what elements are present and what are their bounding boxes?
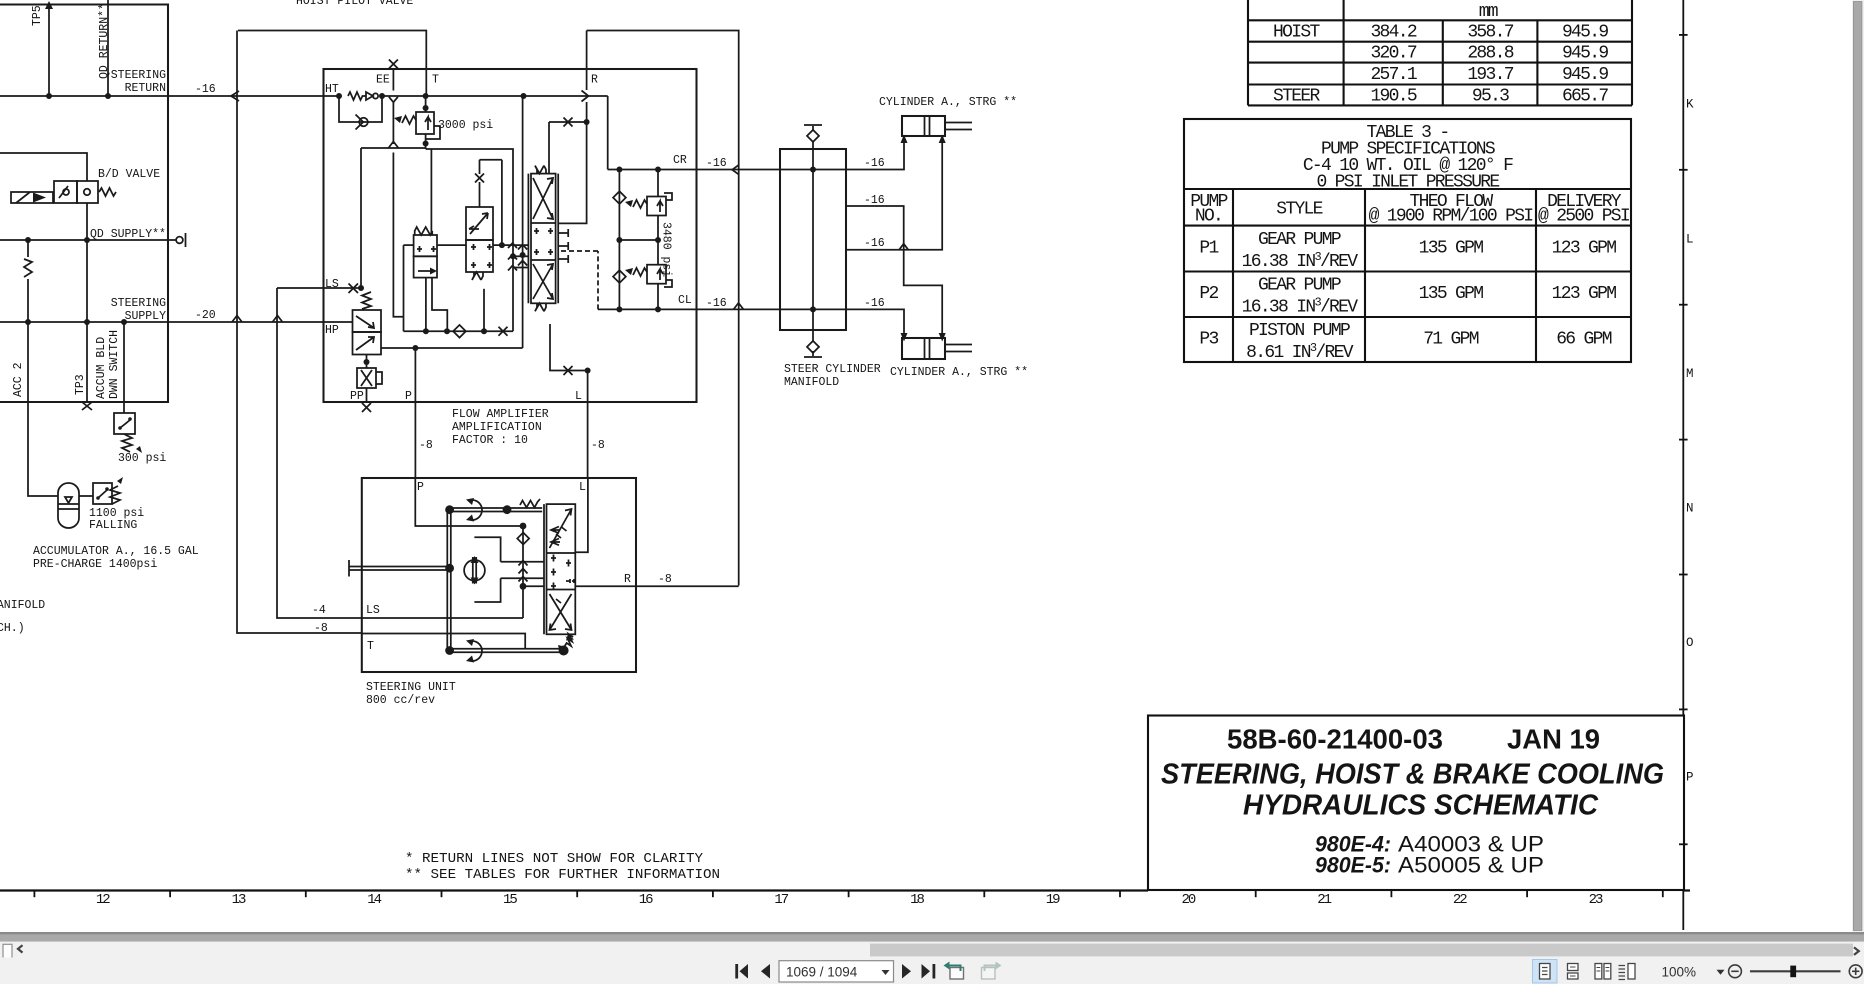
steering cylinder lower <box>902 338 972 359</box>
label CR -16 <box>673 154 727 170</box>
svg-text:STEERING, HOIST & BRAKE COOLIN: STEERING, HOIST & BRAKE COOLING <box>1161 759 1664 791</box>
label -16 line4 <box>864 297 885 310</box>
svg-text:1069 / 1094: 1069 / 1094 <box>786 965 858 980</box>
svg-text:HP: HP <box>325 324 339 337</box>
wire TP5 riser <box>45 1 53 99</box>
zoom out button <box>1729 965 1742 978</box>
pilot sub box <box>361 148 513 331</box>
svg-text:A50005 & UP: A50005 & UP <box>1398 853 1544 878</box>
layout button continuous <box>1568 964 1579 980</box>
label 300 psi <box>118 452 166 465</box>
svg-text:-8: -8 <box>419 439 433 452</box>
wire steering return -16 <box>0 91 324 101</box>
horizontal scrollbar thumb <box>870 944 1853 957</box>
check valve CR side <box>613 170 626 241</box>
label 3000 psi <box>438 119 493 132</box>
svg-text:@ 1900 RPM/100 PSI: @ 1900 RPM/100 PSI <box>1369 207 1534 227</box>
label -8 L line <box>591 439 605 452</box>
svg-text:NO.: NO. <box>1195 207 1222 227</box>
svg-text:13: 13 <box>232 892 246 908</box>
svg-text:800 cc/rev: 800 cc/rev <box>366 694 435 707</box>
svg-text:135 GPM: 135 GPM <box>1419 239 1484 259</box>
ruler ticks <box>34 891 1662 898</box>
wire CL <box>558 251 813 312</box>
pressure valve HP <box>353 292 523 355</box>
svg-text:-16: -16 <box>864 194 885 207</box>
page bottom edge <box>0 932 1864 935</box>
label MANIFOLD (clipped) <box>0 599 45 612</box>
note return lines <box>405 851 720 883</box>
gerotor return double line <box>445 639 568 663</box>
svg-text:STEER: STEER <box>1273 87 1320 107</box>
svg-text:LS: LS <box>366 604 380 617</box>
svg-text:HOIST PILOT VALVE: HOIST PILOT VALVE <box>296 0 413 8</box>
port label R <box>591 74 598 87</box>
hoist pilot valve label (clipped at top) <box>296 0 413 8</box>
svg-text:58B-60-21400-03: 58B-60-21400-03 <box>1227 724 1443 755</box>
title line 2 <box>1243 790 1599 822</box>
svg-text:SUPPLY: SUPPLY <box>125 310 167 323</box>
svg-text:PRE-CHARGE 1400psi: PRE-CHARGE 1400psi <box>33 558 157 571</box>
svg-text:MANIFOLD: MANIFOLD <box>784 376 839 389</box>
wire LS vertical to steering unit <box>277 288 362 618</box>
zoom in button <box>1849 965 1862 978</box>
label ACCUM BLD DWN SWITCH <box>95 330 121 399</box>
label CYLINDER A STRG upper <box>879 96 1017 109</box>
wire R bridge <box>587 31 744 586</box>
svg-text:M: M <box>1686 367 1694 381</box>
check valve manifold bottom <box>804 330 822 357</box>
relief valve 3000psi <box>394 96 440 149</box>
label TP5 <box>31 5 44 26</box>
svg-text:L: L <box>1686 233 1694 247</box>
svg-text:ACC 2: ACC 2 <box>12 362 25 397</box>
svg-text:PISTON PUMP: PISTON PUMP <box>1249 321 1350 341</box>
title block box <box>1148 716 1684 891</box>
svg-text:T: T <box>432 74 439 87</box>
wire T bridge <box>238 31 426 97</box>
svg-text:358.7: 358.7 <box>1467 23 1513 43</box>
port label L steering unit <box>579 481 586 494</box>
steering control spool <box>544 504 575 634</box>
relief valve 3480psi lower <box>625 240 672 309</box>
svg-text:300 psi: 300 psi <box>118 452 166 465</box>
check valve PP <box>357 355 382 403</box>
svg-text:TP5: TP5 <box>31 5 44 26</box>
svg-text:190.5: 190.5 <box>1370 87 1416 107</box>
wire HT drop with orifice <box>518 96 527 348</box>
wire cylinder line 2 <box>846 206 946 342</box>
svg-text:17: 17 <box>774 892 788 908</box>
label FLOW AMPLIFIER <box>452 408 549 447</box>
border ticks right <box>1679 35 1688 844</box>
label QD RETURN** <box>98 3 111 79</box>
svg-text:ACCUM BLD: ACCUM BLD <box>95 337 108 399</box>
label STEERING UNIT <box>366 681 456 707</box>
port label P <box>405 390 412 403</box>
spool feed double line <box>445 498 542 522</box>
wire QD supply <box>0 237 176 243</box>
vertical scrollbar thumb <box>1853 2 1862 931</box>
valve B/D body <box>54 181 116 203</box>
next view button (disabled) <box>982 962 1002 980</box>
svg-text:L: L <box>575 390 582 403</box>
steering cylinder upper <box>902 116 972 136</box>
prev view button <box>944 962 964 980</box>
svg-text:FACTOR : 10: FACTOR : 10 <box>452 434 528 447</box>
wire R internal <box>575 585 636 587</box>
svg-text:0 PSI INLET PRESSURE: 0 PSI INLET PRESSURE <box>1316 173 1499 193</box>
wire L internal <box>575 478 588 552</box>
svg-text:HOIST: HOIST <box>1273 23 1320 43</box>
solenoid B/D <box>11 192 53 203</box>
label -16 steering return <box>195 83 216 96</box>
svg-text:@ 2500 PSI: @ 2500 PSI <box>1538 207 1630 227</box>
title doc number <box>1227 724 1600 755</box>
manifold box A outline <box>0 5 168 403</box>
wire pilot bus <box>404 245 514 338</box>
svg-text:PP: PP <box>350 390 364 403</box>
svg-text:CH.): CH.) <box>0 622 25 635</box>
label CL -16 <box>678 294 727 310</box>
label -16 line1 <box>864 157 885 170</box>
pressure switch 1100psi <box>79 477 123 504</box>
check valve HT bypass <box>339 96 382 130</box>
svg-text:-8: -8 <box>591 439 605 452</box>
layout button continuous facing <box>1619 964 1636 980</box>
svg-text:R: R <box>624 573 631 586</box>
accumulator A <box>58 483 79 528</box>
svg-text:12: 12 <box>96 892 110 908</box>
svg-text:95.3: 95.3 <box>1472 87 1509 107</box>
title model 980E-5 <box>1315 853 1544 878</box>
steering unit box <box>362 478 636 672</box>
svg-text:3000 psi: 3000 psi <box>438 119 493 132</box>
wire LS stub <box>277 148 364 293</box>
scroll right chevron <box>1854 947 1859 955</box>
svg-text:GEAR PUMP: GEAR PUMP <box>1258 230 1341 250</box>
check valve manifold top <box>804 125 822 149</box>
svg-text:-4: -4 <box>312 604 326 617</box>
svg-text:P: P <box>417 481 424 494</box>
svg-text:LS: LS <box>325 278 339 291</box>
svg-text:DWN SWITCH: DWN SWITCH <box>108 330 121 399</box>
svg-text:-16: -16 <box>864 237 885 250</box>
label STEERING SUPPLY <box>111 297 166 323</box>
svg-text:193.7: 193.7 <box>1467 65 1513 85</box>
wire spool bridge ports <box>437 242 528 270</box>
table 3 row P1 <box>1199 230 1616 272</box>
horizontal scrollbar track <box>0 942 1864 958</box>
svg-text:P3: P3 <box>1199 330 1218 350</box>
svg-text:15: 15 <box>503 892 517 908</box>
svg-text:320.7: 320.7 <box>1370 44 1416 64</box>
main spool valve <box>528 166 568 312</box>
wire L drain <box>550 324 591 478</box>
nav page input box <box>779 961 894 982</box>
label -8 P line <box>419 439 433 452</box>
port label HP <box>325 324 339 337</box>
label TP3 <box>74 374 87 395</box>
title model 980E-4 <box>1315 832 1544 857</box>
svg-text:** SEE TABLES FOR FURTHER INFO: ** SEE TABLES FOR FURTHER INFORMATION <box>405 867 720 883</box>
wire LS internal <box>362 617 523 619</box>
title line 1 <box>1161 759 1664 791</box>
svg-text:288.8: 288.8 <box>1467 44 1513 64</box>
svg-text:21: 21 <box>1317 892 1331 908</box>
svg-text:-8: -8 <box>314 622 328 635</box>
wire acc2 branch with orifice <box>24 240 32 325</box>
table 3 row P2 <box>1199 276 1616 318</box>
wire cylinder line 1 <box>813 135 908 170</box>
steer cylinder manifold box <box>780 149 846 330</box>
svg-text:945.9: 945.9 <box>1562 23 1608 43</box>
wire left bridge vertical to steering unit T <box>237 31 362 634</box>
svg-text:945.9: 945.9 <box>1562 65 1608 85</box>
label ACC 2 <box>12 362 25 397</box>
wire QD return riser <box>105 0 111 99</box>
zoom dropdown caret <box>1717 970 1725 975</box>
svg-text:CYLINDER A., STRG **: CYLINDER A., STRG ** <box>879 96 1017 109</box>
svg-text:384.2: 384.2 <box>1370 23 1416 43</box>
svg-text:N: N <box>1686 502 1694 516</box>
table 3 row P3 <box>1199 321 1611 363</box>
svg-text:CYLINDER A., STRG **: CYLINDER A., STRG ** <box>890 366 1028 379</box>
svg-text:123 GPM: 123 GPM <box>1552 284 1617 304</box>
table hoist/steer borders <box>1248 0 1632 105</box>
svg-text:66 GPM: 66 GPM <box>1556 330 1612 350</box>
wire to 300psi switch <box>121 319 127 413</box>
svg-text:K: K <box>1686 98 1694 112</box>
proportional valve pilot <box>466 160 502 332</box>
svg-text:-16: -16 <box>706 157 727 170</box>
svg-text:QD RETURN**: QD RETURN** <box>98 3 111 79</box>
label 1100 psi FALLING <box>89 507 144 532</box>
border line right <box>1682 0 1684 930</box>
label QD SUPPLY** <box>90 228 166 241</box>
check valve CL side <box>613 240 626 309</box>
gerotor column double line <box>447 508 451 652</box>
svg-text:-16: -16 <box>706 297 727 310</box>
wire relief mid bus <box>616 237 661 243</box>
label STEER CYLINDER MANIFOLD <box>784 363 881 389</box>
port label PP <box>350 390 371 412</box>
svg-text:TP3: TP3 <box>74 374 87 395</box>
table 3 header text <box>1303 123 1513 193</box>
svg-text:T: T <box>367 640 374 653</box>
svg-text:19: 19 <box>1046 892 1060 908</box>
svg-text:B/D VALVE: B/D VALVE <box>98 168 160 181</box>
svg-text:O: O <box>1686 636 1694 650</box>
label -16 line2 <box>864 194 885 207</box>
svg-text:EE: EE <box>376 74 390 87</box>
nav last page button <box>922 964 936 979</box>
port label L <box>575 390 582 403</box>
svg-text:945.9: 945.9 <box>1562 44 1608 64</box>
svg-text:100%: 100% <box>1662 965 1697 980</box>
svg-text:P: P <box>405 390 412 403</box>
wire R external <box>636 585 739 587</box>
wire cylinder line 4 <box>813 309 908 341</box>
svg-text:-16: -16 <box>864 297 885 310</box>
svg-text:14: 14 <box>367 892 381 908</box>
svg-text:ACCUMULATOR A., 16.5 GAL: ACCUMULATOR A., 16.5 GAL <box>33 545 199 558</box>
wire P internal <box>415 478 526 529</box>
vertical scrollbar track <box>1853 0 1864 942</box>
table 3 column headers <box>1190 192 1630 227</box>
svg-text:P2: P2 <box>1199 284 1218 304</box>
label -8 T line <box>314 622 328 635</box>
wire accumulator branch <box>28 322 58 496</box>
svg-text:16.38 IN3/REV: 16.38 IN3/REV <box>1242 250 1359 272</box>
svg-text:980E-5:: 980E-5: <box>1315 853 1391 878</box>
sidebar toggle icon <box>3 944 12 960</box>
svg-text:CR: CR <box>673 154 687 167</box>
svg-text:CL: CL <box>678 294 692 307</box>
svg-text:22: 22 <box>1453 892 1467 908</box>
port label T <box>432 74 439 87</box>
flow amplifier box <box>324 69 697 402</box>
gerotor pump <box>464 556 485 585</box>
label -4 LS line <box>312 604 326 617</box>
port label R steering unit <box>624 573 631 586</box>
svg-text:665.7: 665.7 <box>1562 87 1608 107</box>
toolbar background <box>0 958 1864 984</box>
svg-text:STEERING UNIT: STEERING UNIT <box>366 681 456 694</box>
wire HT line <box>324 92 608 170</box>
svg-text:AMPLIFICATION: AMPLIFICATION <box>452 421 542 434</box>
svg-text:STYLE: STYLE <box>1276 200 1322 220</box>
label -20 <box>195 309 216 322</box>
relief valve 3480psi upper <box>625 170 672 241</box>
label -8 R line <box>658 573 672 586</box>
manifold internal gallery <box>810 149 816 330</box>
svg-text:L: L <box>579 481 586 494</box>
svg-text:* RETURN LINES NOT SHOW FOR CL: * RETURN LINES NOT SHOW FOR CLARITY <box>405 851 703 867</box>
wire P to steering unit <box>414 348 416 478</box>
svg-text:FLOW AMPLIFIER: FLOW AMPLIFIER <box>452 408 549 421</box>
port label P steering unit <box>417 481 424 494</box>
table 3 pump specifications borders <box>1184 119 1631 362</box>
svg-text:71 GPM: 71 GPM <box>1423 330 1479 350</box>
svg-text:8.61 IN3/REV: 8.61 IN3/REV <box>1246 341 1354 363</box>
svg-text:P: P <box>1686 771 1694 785</box>
pilot gallery with check <box>517 526 544 618</box>
svg-text:RETURN: RETURN <box>125 82 166 95</box>
port label HT <box>325 83 339 96</box>
port label EE <box>376 74 390 87</box>
wire R port drop <box>549 31 590 224</box>
pressure switch 300psi <box>114 413 142 453</box>
nav prev page button <box>761 964 770 979</box>
label CYLINDER A STRG lower <box>890 366 1028 379</box>
solenoid valve EE pilot <box>414 149 448 331</box>
svg-text:HYDRAULICS SCHEMATIC: HYDRAULICS SCHEMATIC <box>1243 790 1599 822</box>
table hoist/steer text <box>1273 2 1608 107</box>
label 3480 psi <box>660 222 673 277</box>
label STEERING RETURN <box>111 69 166 95</box>
QD supply quick disconnect <box>176 233 185 247</box>
wire T internal <box>362 634 525 649</box>
svg-text:-16: -16 <box>195 83 216 96</box>
grid letters K-P <box>1686 98 1694 785</box>
ruler line <box>0 889 1690 891</box>
label B/D VALVE <box>98 168 160 181</box>
svg-text:-8: -8 <box>658 573 672 586</box>
drive shaft double line <box>349 560 454 577</box>
svg-text:20: 20 <box>1181 892 1195 908</box>
svg-text:-20: -20 <box>195 309 216 322</box>
wire CR <box>608 167 813 173</box>
svg-text:STEERING: STEERING <box>111 297 166 310</box>
svg-text:JAN 19: JAN 19 <box>1507 724 1600 755</box>
label -16 line3 <box>864 237 885 250</box>
svg-text:MANIFOLD: MANIFOLD <box>0 599 45 612</box>
label CH.) (clipped) <box>0 622 25 635</box>
port label LS <box>325 278 339 291</box>
label ACCUMULATOR A <box>33 545 199 571</box>
zoom slider <box>1750 966 1841 978</box>
svg-text:-16: -16 <box>864 157 885 170</box>
layout button facing <box>1595 964 1611 980</box>
wire cylinder line 3 <box>846 135 946 250</box>
nav next page button <box>902 964 911 979</box>
grey band <box>0 935 1864 942</box>
svg-text:GEAR PUMP: GEAR PUMP <box>1258 276 1341 296</box>
svg-text:STEERING: STEERING <box>111 69 166 82</box>
nav first page button <box>735 964 748 979</box>
svg-text:STEER CYLINDER: STEER CYLINDER <box>784 363 881 376</box>
pump casing <box>474 537 544 602</box>
collapse chevron <box>18 945 23 952</box>
port label LS steering unit <box>366 604 380 617</box>
svg-text:123 GPM: 123 GPM <box>1552 239 1617 259</box>
spool return spring <box>558 634 574 652</box>
test point EE <box>388 60 403 317</box>
svg-text:16.38 IN3/REV: 16.38 IN3/REV <box>1242 296 1359 318</box>
svg-text:16: 16 <box>639 892 653 908</box>
svg-text:FALLING: FALLING <box>89 519 137 532</box>
port label T steering unit <box>367 640 374 653</box>
svg-text:257.1: 257.1 <box>1370 65 1416 85</box>
svg-text:23: 23 <box>1589 892 1603 908</box>
svg-text:135 GPM: 135 GPM <box>1419 284 1484 304</box>
zoom level text <box>1662 965 1697 980</box>
svg-text:QD SUPPLY**: QD SUPPLY** <box>90 228 166 241</box>
wire TP3 branch <box>82 240 92 410</box>
svg-text:18: 18 <box>910 892 924 908</box>
svg-text:R: R <box>591 74 598 87</box>
layout button single page (active) <box>1533 960 1558 984</box>
B/D valve circuit box <box>0 153 87 240</box>
wire steering supply -20 <box>0 316 352 323</box>
ruler numbers <box>96 892 1603 908</box>
svg-text:P1: P1 <box>1199 239 1218 259</box>
svg-text:mm: mm <box>1479 2 1498 22</box>
